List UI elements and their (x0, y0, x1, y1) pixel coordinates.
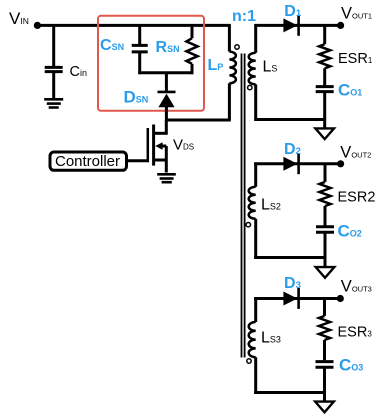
svg-text:ESR1: ESR1 (338, 51, 373, 67)
capacitor CO2 (316, 227, 334, 233)
wire ESR2 upper (324, 164, 327, 182)
transistor Q1 MOSFET (148, 120, 167, 173)
resistor ESR2 (319, 182, 330, 206)
wire output2 bottom (254, 256, 325, 259)
resistor ESR3 (319, 316, 330, 340)
wire output3 bottom (254, 391, 325, 394)
wire ESR2 to CO2 (324, 206, 327, 226)
svg-text:ESR2: ESR2 (338, 190, 376, 206)
capacitor CSN (132, 45, 148, 52)
diode D3 (283, 288, 298, 309)
svg-text:Controller: Controller (55, 153, 120, 170)
wire primary top (228, 25, 231, 51)
wire LS bottom lead (254, 84, 257, 121)
controller box (50, 152, 127, 170)
wire drain junction to primary bottom (165, 119, 231, 122)
wire CO1 lower (323, 93, 326, 129)
wire primary bottom (228, 83, 231, 120)
diode D2 (283, 153, 298, 174)
wire snubber bottom (138, 71, 193, 74)
node LS3 phase dot (247, 359, 251, 363)
ground output2 (316, 267, 335, 278)
wire LS3 top lead (254, 297, 257, 322)
resistor ESR1 (319, 44, 330, 68)
wire RSN lower (191, 64, 194, 74)
wire main top rail VIN to primary (37, 24, 230, 27)
resistor RSN (186, 38, 197, 64)
inductor LS secondary winding 1 (249, 53, 256, 85)
wire Cin branch upper (52, 25, 55, 66)
wire LS top lead (254, 24, 257, 53)
wire LS3 bottom lead (254, 357, 257, 394)
inductor LP primary winding (229, 52, 236, 84)
snubber red box (98, 16, 204, 111)
wire LS2 bottom lead (254, 219, 257, 259)
ground Cin earth (44, 99, 63, 107)
wire ESR1 to CO1 (323, 68, 326, 85)
node primary phase dot (235, 45, 239, 49)
ground output3 (315, 402, 334, 413)
diode D1 (283, 15, 298, 36)
node LS phase dot (248, 85, 252, 89)
wire ESR3 to CO3 (323, 340, 326, 360)
wire output1 top (254, 24, 340, 27)
wire output2 top (254, 162, 341, 165)
wire CO2 lower (324, 233, 327, 268)
wire ESR3 upper (323, 299, 326, 316)
wire CSN lower (138, 53, 141, 74)
capacitor CO1 (316, 87, 334, 92)
diode DSN (158, 92, 176, 107)
wire CO3 lower (323, 368, 326, 402)
capacitor CO3 (316, 362, 334, 368)
node VIN dot (34, 22, 41, 29)
wire CSN branch upper (138, 25, 141, 44)
wire output1 bottom (254, 118, 324, 121)
node VOUT3 dot (337, 295, 344, 302)
wire DSN stem upper (165, 73, 168, 92)
wire output3 top (254, 297, 340, 300)
capacitor Cin (45, 67, 63, 71)
node VOUT1 dot (337, 22, 344, 29)
inductor LS2 winding (249, 187, 256, 219)
wire LS2 top lead (254, 162, 257, 186)
wire controller to gate (127, 159, 147, 162)
wire ESR1 upper (323, 25, 326, 44)
svg-text:ESR3: ESR3 (338, 325, 373, 341)
ground output1 (315, 128, 334, 139)
node VOUT2 dot (337, 160, 344, 167)
wire Cin lower (52, 73, 55, 98)
node LS2 phase dot (246, 223, 250, 227)
wire DSN to drain junction (165, 107, 168, 121)
ground MOSFET source (157, 174, 176, 182)
transformer core (242, 54, 245, 358)
wire RSN branch upper (191, 25, 194, 38)
inductor LS3 winding (249, 322, 256, 357)
svg-text:n:1: n:1 (232, 8, 256, 25)
